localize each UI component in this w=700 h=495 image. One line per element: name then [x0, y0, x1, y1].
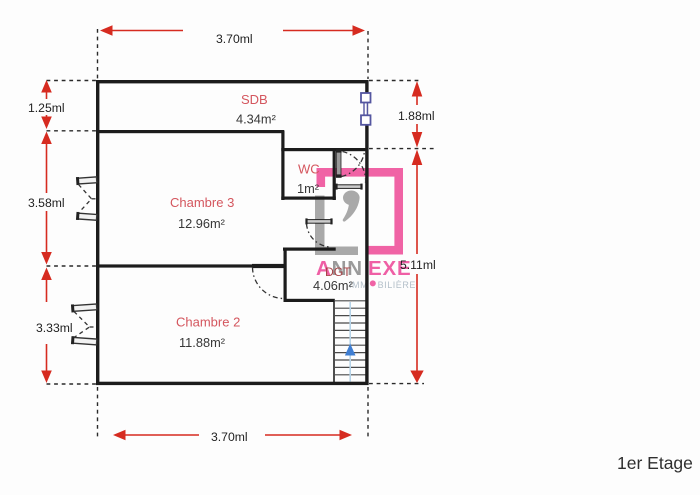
- svg-text:1.25ml: 1.25ml: [28, 101, 65, 115]
- svg-text:3.70ml: 3.70ml: [211, 430, 248, 444]
- svg-text:1.88ml: 1.88ml: [398, 109, 435, 123]
- svg-text:BILIÈRE: BILIÈRE: [378, 280, 416, 290]
- svg-text:Chambre 2: Chambre 2: [176, 315, 240, 330]
- svg-text:DGT: DGT: [325, 265, 351, 279]
- svg-text:3.70ml: 3.70ml: [216, 32, 253, 46]
- svg-text:5.11ml: 5.11ml: [400, 258, 436, 272]
- svg-text:1er Etage: 1er Etage: [617, 453, 693, 473]
- svg-text:SDB: SDB: [241, 92, 268, 107]
- svg-text:WC: WC: [298, 162, 320, 177]
- svg-text:3.58ml: 3.58ml: [28, 196, 65, 210]
- svg-text:Chambre 3: Chambre 3: [170, 195, 234, 210]
- svg-text:3.33ml: 3.33ml: [36, 321, 73, 335]
- svg-text:4.34m²: 4.34m²: [236, 112, 277, 127]
- svg-text:4.06m²: 4.06m²: [313, 278, 354, 293]
- svg-text:12.96m²: 12.96m²: [178, 216, 226, 231]
- svg-text:1m²: 1m²: [297, 181, 320, 196]
- svg-text:11.88m²: 11.88m²: [179, 335, 226, 350]
